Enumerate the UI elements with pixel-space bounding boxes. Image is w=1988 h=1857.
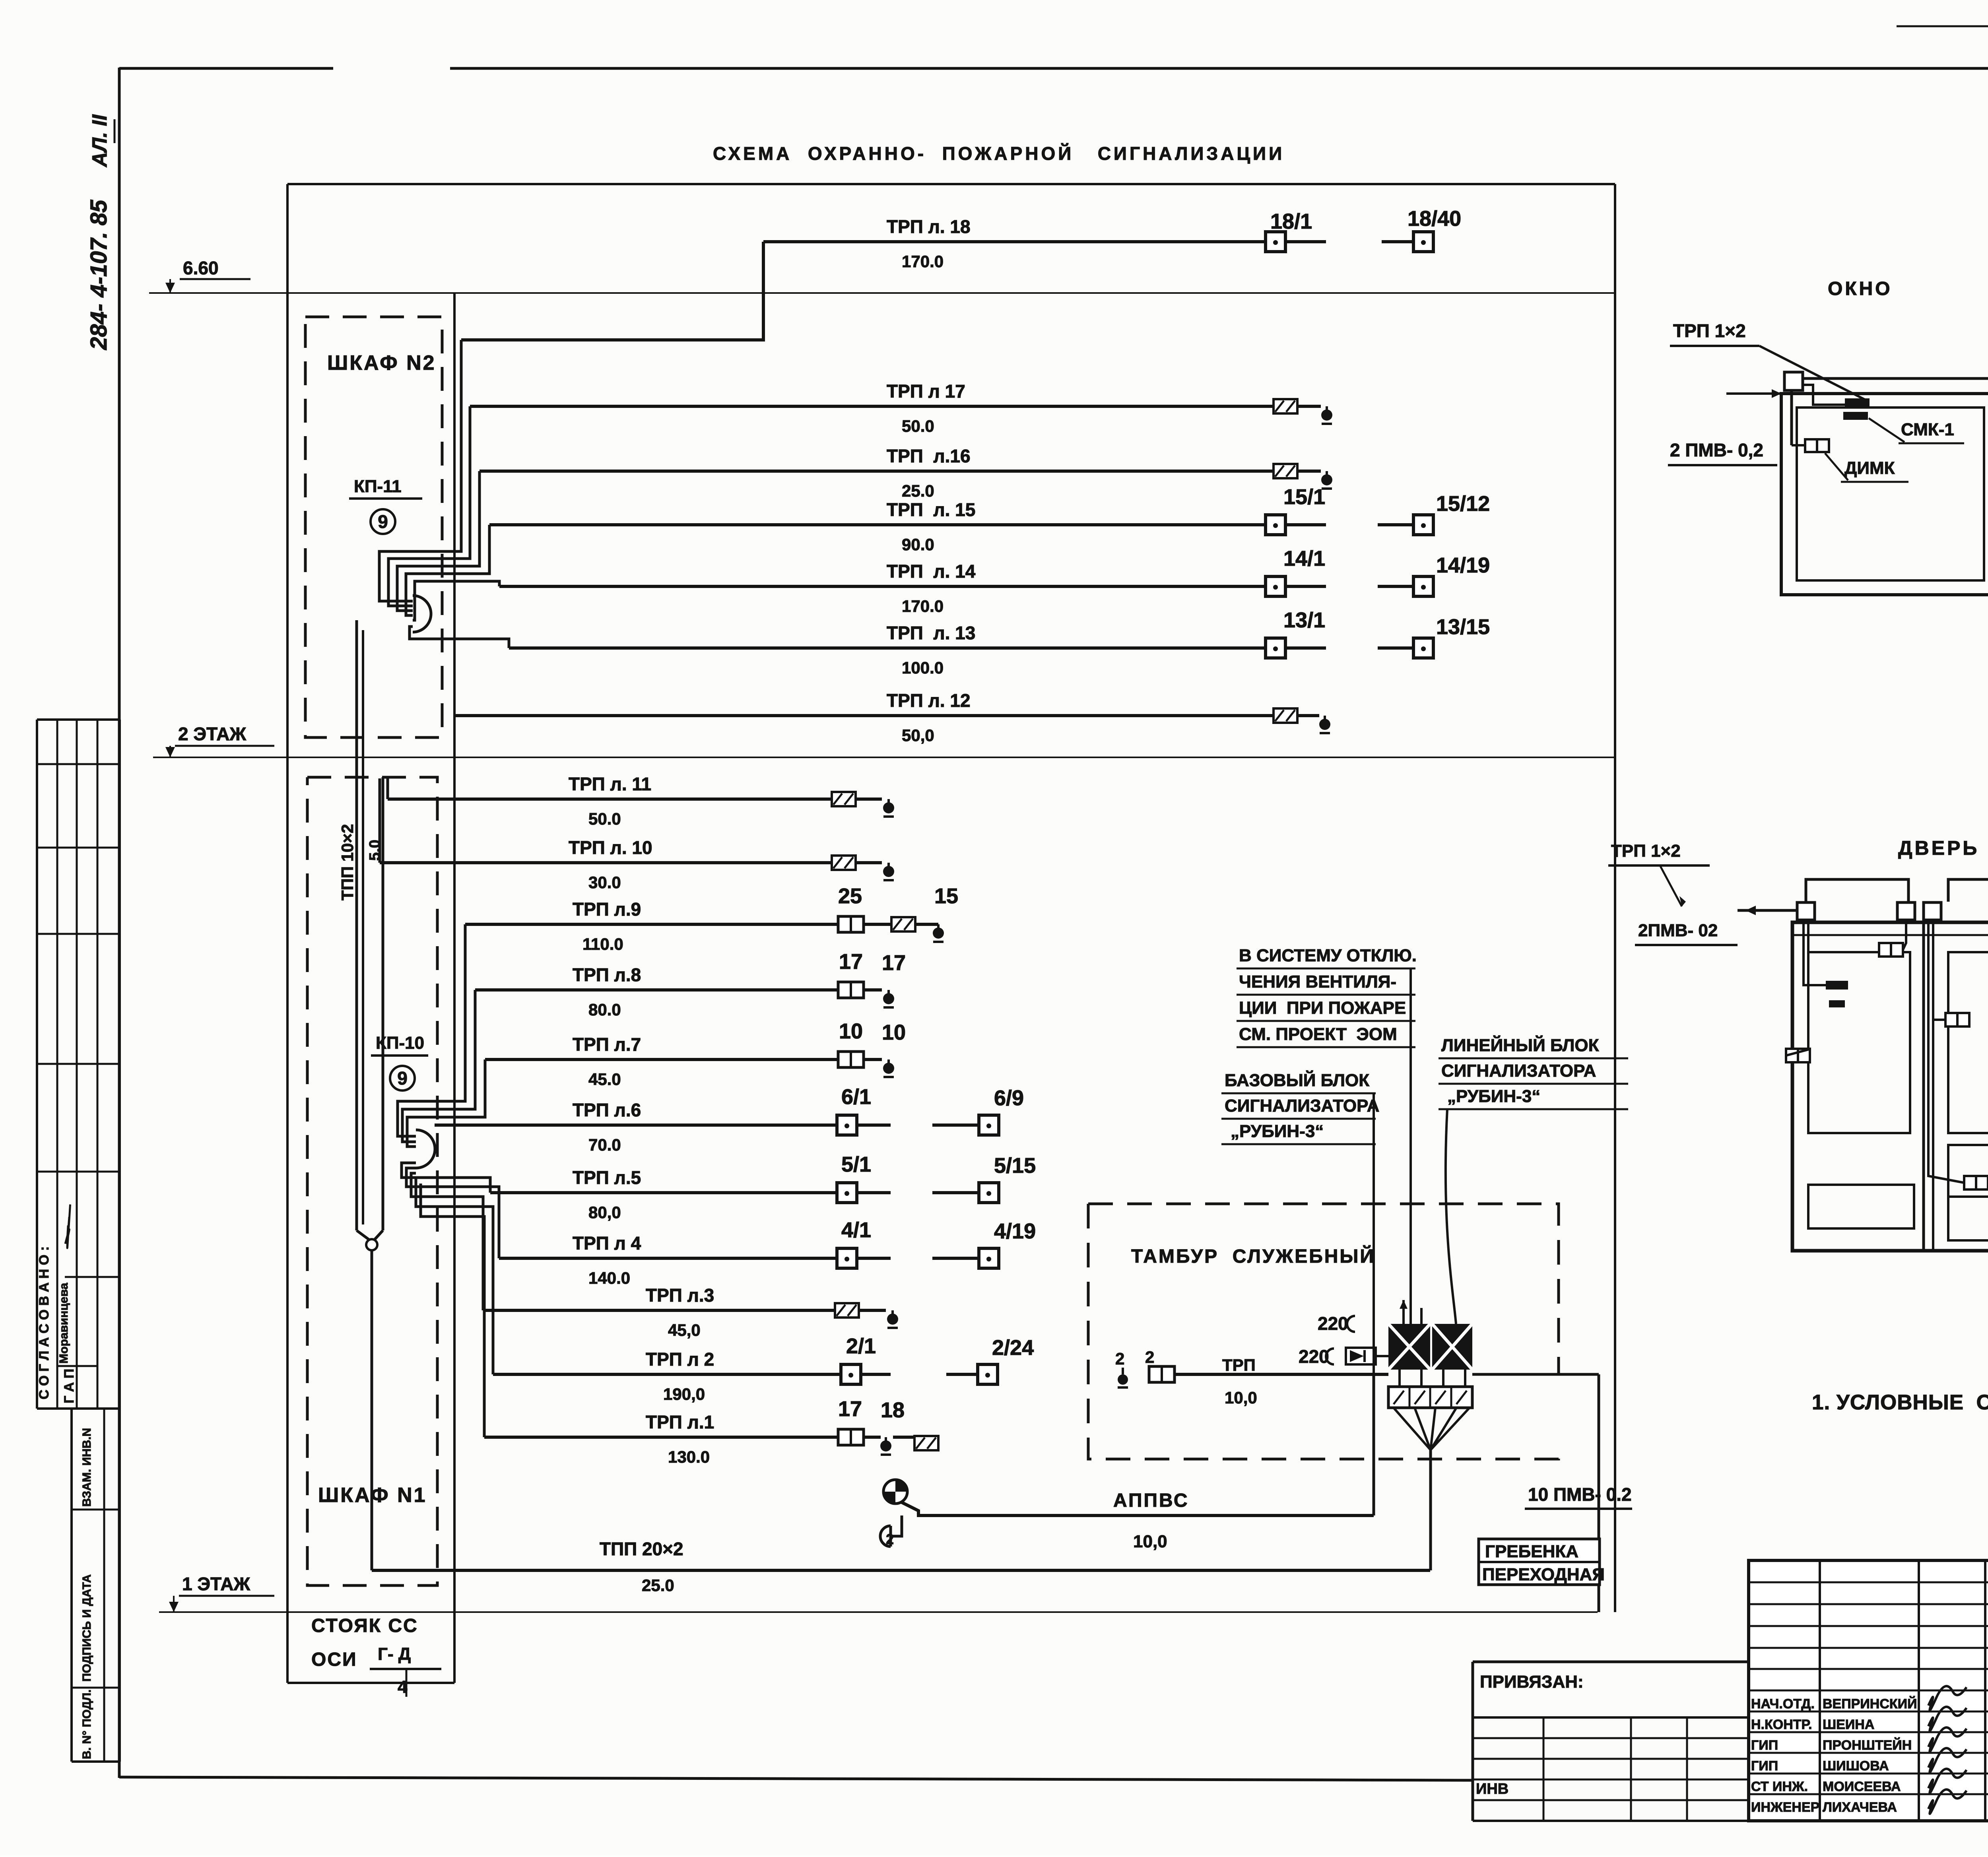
stamp left column verticals xyxy=(1819,1560,1821,1821)
terminator л.7 xyxy=(887,1059,890,1065)
leaf2 small panel xyxy=(1948,1145,1988,1197)
svg-text:ГРЕБЕНКА: ГРЕБЕНКА xyxy=(1485,1542,1578,1561)
svg-text:Г А П: Г А П xyxy=(62,1369,77,1403)
riser line to stояк box right edge xyxy=(453,293,456,1683)
svg-text:10: 10 xyxy=(839,1019,863,1043)
diode symbol xyxy=(1346,1348,1376,1364)
svg-text:В СИСТЕМУ ОТКЛЮ.: В СИСТЕМУ ОТКЛЮ. xyxy=(1239,946,1417,965)
svg-text:ТРП л 17: ТРП л 17 xyxy=(887,381,965,402)
wire ТРП л.5 xyxy=(490,1191,837,1194)
svg-text:ОСИ: ОСИ xyxy=(311,1649,357,1670)
vitrage left lead wire xyxy=(1738,909,1796,912)
svg-text:2 ПМВ- 0,2: 2 ПМВ- 0,2 xyxy=(1670,440,1763,460)
svg-text:СИГНАЛИЗАТОРА: СИГНАЛИЗАТОРА xyxy=(1225,1096,1379,1116)
привязан table xyxy=(1473,1661,1749,1663)
terminator л.1 xyxy=(885,1437,887,1443)
wire fan point down to ТПП 20x2 xyxy=(1429,1450,1432,1570)
wire ТПП 20x2 xyxy=(372,1569,1430,1572)
vitrage body outer xyxy=(1792,922,1988,1251)
svg-text:15/12: 15/12 xyxy=(1436,492,1490,516)
wire ТРП л.15 feed xyxy=(406,525,489,615)
connector КП-10 circled 9 xyxy=(390,1066,415,1091)
svg-text:4/1: 4/1 xyxy=(841,1218,871,1242)
svg-text:ГИП: ГИП xyxy=(1751,1738,1778,1753)
svg-text:18: 18 xyxy=(881,1398,905,1422)
wire ТРП л.4 feed xyxy=(406,1168,499,1258)
wire ТРП л.3 xyxy=(483,1309,835,1312)
svg-text:СМК-1: СМК-1 xyxy=(1901,420,1954,439)
terminator л.3 xyxy=(891,1310,894,1316)
svg-text:17: 17 xyxy=(882,951,906,975)
main stamp outer xyxy=(1749,1560,1988,1821)
wire segment to 13/15 xyxy=(1378,646,1414,650)
vitrage smk pairs top row xyxy=(1879,943,1891,957)
svg-text:18/40: 18/40 xyxy=(1408,207,1461,231)
wire base block vertical to line xyxy=(1373,1374,1375,1515)
signal unit Рубин-3 X-box right xyxy=(1432,1324,1472,1370)
svg-text:ПЕРЕХОДНАЯ: ПЕРЕХОДНАЯ xyxy=(1482,1565,1605,1584)
wire ТРП л.18 xyxy=(763,240,1267,243)
detector 17 head xyxy=(838,982,864,998)
svg-text:АППВС: АППВС xyxy=(1113,1490,1189,1511)
svg-text:5/1: 5/1 xyxy=(841,1153,871,1176)
rubin top arrows xyxy=(1402,1300,1405,1324)
terminator л.10 xyxy=(887,863,890,868)
svg-text:15/1: 15/1 xyxy=(1283,485,1325,509)
svg-text:С О Г Л А С О В А Н О :: С О Г Л А С О В А Н О : xyxy=(37,1246,52,1399)
detector л.16 end switch xyxy=(1274,464,1297,478)
svg-text:ТРП л.6: ТРП л.6 xyxy=(573,1100,641,1120)
svg-text:ЧЕНИЯ ВЕНТИЛЯ-: ЧЕНИЯ ВЕНТИЛЯ- xyxy=(1239,972,1396,992)
level 6.60 line xyxy=(149,292,1615,294)
svg-text:СМ. ПРОЕКТ ЭОМ: СМ. ПРОЕКТ ЭОМ xyxy=(1239,1025,1397,1044)
svg-text:2/24: 2/24 xyxy=(992,1336,1034,1360)
svg-text:30.0: 30.0 xyxy=(588,873,621,892)
wire ТРП л.14 feed xyxy=(413,581,499,620)
wire 10ПМВ-0.2 to гребенка xyxy=(1472,1373,1599,1376)
leader linear block to rubin xyxy=(1446,1109,1456,1324)
svg-text:ДВЕРЬ ВИ РАЖНАЯ: ДВЕРЬ ВИ РАЖНАЯ xyxy=(1898,837,1988,859)
top trim line xyxy=(1897,25,1988,27)
trunk wire down to ТПП 20x2 xyxy=(371,1250,373,1570)
terminator tambour xyxy=(1118,1374,1128,1385)
vitrage smk pairs lower xyxy=(1945,1013,1957,1026)
wire 220 into block xyxy=(1376,1355,1388,1357)
svg-text:2: 2 xyxy=(1115,1349,1124,1368)
svg-text:18/1: 18/1 xyxy=(1270,210,1312,233)
wire ТРП л.2 feed xyxy=(416,1178,493,1374)
detector 4/19 xyxy=(979,1248,999,1268)
vitrage wires leaf1 xyxy=(1804,920,1826,985)
vitrage wires leaf2 xyxy=(1928,920,1964,1183)
detector 18/40 xyxy=(1413,232,1433,252)
wire ТРП л.13 feed xyxy=(410,627,509,648)
left margin stamp table lower xyxy=(70,1409,73,1762)
signature squiggle xyxy=(56,1205,80,1248)
svg-text:6/1: 6/1 xyxy=(841,1085,871,1109)
wire ТРП л.5 feed xyxy=(402,1163,490,1193)
detector head tambour xyxy=(1149,1366,1175,1382)
svg-text:15: 15 xyxy=(934,884,958,908)
svg-text:ТРП л.3: ТРП л.3 xyxy=(646,1285,714,1306)
signal unit Рубин-3 X-box left xyxy=(1388,1324,1430,1370)
svg-text:45.0: 45.0 xyxy=(588,1070,621,1089)
svg-text:50.0: 50.0 xyxy=(902,417,934,435)
svg-text:ТРП л. 12: ТРП л. 12 xyxy=(887,690,971,711)
svg-text:ТРП л 2: ТРП л 2 xyxy=(646,1349,714,1370)
svg-text:СХЕМА ОХРАННО- ПОЖАРНОЙ СИ: СХЕМА ОХРАННО- ПОЖАРНОЙ СИГНАЛИЗАЦИИ xyxy=(713,143,1285,164)
window frame inner xyxy=(1797,407,1984,580)
svg-text:2: 2 xyxy=(1145,1348,1154,1366)
svg-text:ШКАФ N2: ШКАФ N2 xyxy=(327,351,436,375)
wire АППВС xyxy=(901,1502,1374,1515)
trunk wire extra xyxy=(362,630,364,1224)
vitrage top rail xyxy=(1792,934,1988,936)
svg-text:6/9: 6/9 xyxy=(994,1086,1024,1110)
wire ТРП л.4 xyxy=(499,1257,837,1260)
terminator л.11 xyxy=(887,799,890,805)
svg-text:1. УСЛОВНЫЕ ОБОЗНАЧЕНИЯ СМ.: 1. УСЛОВНЫЕ ОБОЗНАЧЕНИЯ СМ. ЛИСТ 1. xyxy=(1812,1391,1988,1414)
vitrage junction boxes xyxy=(1797,902,1815,920)
svg-text:10: 10 xyxy=(882,1021,906,1044)
wire ТРП л.14 xyxy=(499,585,1267,588)
stояк box bottom xyxy=(287,1682,454,1684)
svg-text:2 ЭТАЖ: 2 ЭТАЖ xyxy=(178,724,247,744)
window junction box xyxy=(1784,372,1803,390)
svg-text:ТРП л. 14: ТРП л. 14 xyxy=(887,561,976,582)
wire segment to 2/24 xyxy=(946,1373,978,1376)
wire segment л.1 xyxy=(893,1436,914,1439)
detector 10 head xyxy=(838,1052,864,1067)
wire ТРП л.11 xyxy=(388,798,832,801)
svg-text:ИНЖЕНЕР: ИНЖЕНЕР xyxy=(1751,1800,1819,1815)
svg-text:13/15: 13/15 xyxy=(1436,615,1490,639)
svg-text:„РУБИН-3“: „РУБИН-3“ xyxy=(1447,1087,1540,1106)
sheet frame border xyxy=(118,68,121,1778)
leader to junction xyxy=(1759,346,1869,402)
detector л.17 end switch xyxy=(1274,399,1297,413)
stamp name rows xyxy=(1749,1690,1988,1692)
wire гребенка down to 1 этаж xyxy=(1598,1585,1600,1612)
svg-text:220: 220 xyxy=(1299,1346,1329,1367)
svg-text:9: 9 xyxy=(397,1068,408,1089)
sensor ДИМК xyxy=(1805,439,1817,452)
wire from note to rubin xyxy=(1409,968,1412,1324)
detector 5/1 xyxy=(837,1183,857,1203)
wire ТРП 10.0 inside tambour xyxy=(1175,1373,1388,1376)
wire ТРП л.3 feed xyxy=(411,1173,483,1310)
svg-text:ТРП л.5: ТРП л.5 xyxy=(573,1167,641,1188)
svg-text:170.0: 170.0 xyxy=(902,252,944,271)
detector 14/19 xyxy=(1413,576,1433,596)
svg-text:17: 17 xyxy=(839,950,863,974)
detector л.12 end switch xyxy=(1274,708,1297,723)
wire ТРП л.10 xyxy=(380,861,832,864)
svg-text:СТОЯК СС: СТОЯК СС xyxy=(311,1615,418,1636)
level 2 ЭТАЖ line xyxy=(153,757,1615,758)
svg-text:ТПП 20×2: ТПП 20×2 xyxy=(600,1539,683,1559)
terminator л.9 xyxy=(937,924,940,930)
wire ТРП л.9 feed xyxy=(398,924,465,1136)
wire segment to 6/9 xyxy=(932,1124,979,1127)
svg-text:ЦИИ ПРИ ПОЖАРЕ: ЦИИ ПРИ ПОЖАРЕ xyxy=(1239,998,1406,1018)
dashed box ТАМБУР СЛУЖЕБНЫЙ xyxy=(1088,1204,1559,1374)
svg-text:50.0: 50.0 xyxy=(588,809,621,828)
svg-text:220: 220 xyxy=(1318,1313,1348,1334)
svg-text:СТ ИНЖ.: СТ ИНЖ. xyxy=(1751,1779,1808,1794)
svg-text:ТРП л. 18: ТРП л. 18 xyxy=(887,216,971,237)
svg-text:10 ПМВ- 0.2: 10 ПМВ- 0.2 xyxy=(1528,1484,1632,1505)
terminator л.12 xyxy=(1324,716,1326,721)
window top wire xyxy=(1803,377,1988,380)
svg-text:ТРП: ТРП xyxy=(1222,1356,1256,1374)
wire segment to 5/15 xyxy=(932,1191,979,1194)
detector л.10 end switch xyxy=(832,856,856,870)
wire ТРП л.17 xyxy=(470,405,1274,408)
detector л.11 end switch xyxy=(832,792,856,806)
leader base block down xyxy=(1373,1093,1375,1374)
connector fan КП-11 xyxy=(413,596,431,632)
wire ТРП л.17 feed xyxy=(388,406,470,606)
connector fan КП-10 xyxy=(416,1130,435,1168)
svg-text:ДИМК: ДИМК xyxy=(1844,458,1895,478)
connector КП-11 circled 9 xyxy=(371,509,395,534)
detector 17-18 head xyxy=(838,1429,864,1445)
wire ТРП л.8 xyxy=(475,988,838,992)
svg-text:ТРП л. 15: ТРП л. 15 xyxy=(887,499,975,520)
svg-text:АЛ. II: АЛ. II xyxy=(88,114,111,168)
svg-text:ТРП л.7: ТРП л.7 xyxy=(573,1034,641,1055)
detector 4/1 xyxy=(837,1248,857,1268)
detector 2/1 xyxy=(841,1364,861,1384)
terminator л.16 xyxy=(1326,471,1328,477)
detector 2/24 xyxy=(978,1364,998,1384)
svg-text:ТРП л. 13: ТРП л. 13 xyxy=(887,623,975,643)
wire ТРП л.16 feed xyxy=(397,471,480,611)
svg-text:ТРП 1×2: ТРП 1×2 xyxy=(1611,841,1681,861)
svg-text:ТРП л. 10: ТРП л. 10 xyxy=(569,837,652,858)
svg-text:70.0: 70.0 xyxy=(588,1135,621,1154)
svg-text:1 ЭТАЖ: 1 ЭТАЖ xyxy=(182,1574,250,1594)
svg-text:ИНВ: ИНВ xyxy=(1476,1781,1508,1797)
svg-text:9: 9 xyxy=(378,511,388,532)
window frame outer xyxy=(1781,394,1988,595)
svg-text:Моравинцева: Моравинцева xyxy=(57,1283,70,1364)
svg-text:ТРП л.8: ТРП л.8 xyxy=(573,964,641,985)
wire ТРП л.18 feed riser xyxy=(461,242,763,340)
wire ТРП л.10 feed xyxy=(379,778,381,863)
detector 14/1 xyxy=(1266,576,1285,596)
svg-text:25.0: 25.0 xyxy=(902,481,934,500)
svg-text:2ПМВ- 02: 2ПМВ- 02 xyxy=(1638,921,1718,940)
svg-text:ТАМБУР СЛУЖЕБНЫЙ: ТАМБУР СЛУЖЕБНЫЙ xyxy=(1131,1245,1375,1267)
svg-text:13/1: 13/1 xyxy=(1283,608,1325,632)
svg-text:ЛИХАЧЕВА: ЛИХАЧЕВА xyxy=(1823,1800,1897,1815)
leaf2 panel xyxy=(1948,952,1988,1133)
wire ТРП л.9 xyxy=(465,923,837,926)
svg-text:100.0: 100.0 xyxy=(902,658,944,677)
wire ТРП л.15 xyxy=(489,523,1267,526)
detector 13/15 xyxy=(1413,638,1433,658)
terminator л.8 xyxy=(887,990,890,995)
svg-text:80,0: 80,0 xyxy=(588,1203,621,1222)
wire ТРП л.11 feed xyxy=(386,778,389,799)
detector л.9 end switch xyxy=(891,917,915,931)
trunk junction circle xyxy=(357,1230,369,1240)
detector 13/1 xyxy=(1266,638,1285,658)
svg-text:ТРП л.1: ТРП л.1 xyxy=(646,1412,714,1432)
main diagram enclosure box xyxy=(287,183,1615,185)
svg-text:ТРП 1×2: ТРП 1×2 xyxy=(1673,320,1746,341)
svg-text:ВЗАМ. ИНВ.N: ВЗАМ. ИНВ.N xyxy=(80,1428,93,1507)
svg-text:БАЗОВЫЙ БЛОК: БАЗОВЫЙ БЛОК xyxy=(1225,1070,1369,1090)
fan out to гребенка point xyxy=(1394,1408,1431,1450)
svg-text:190,0: 190,0 xyxy=(663,1385,705,1403)
svg-text:ПОДПИСЬ И ДАТА: ПОДПИСЬ И ДАТА xyxy=(80,1574,93,1682)
wire ТРП л.16 xyxy=(480,470,1274,473)
svg-text:ТРП л 4: ТРП л 4 xyxy=(573,1233,641,1254)
detector 6/1 xyxy=(837,1115,857,1135)
svg-text:110.0: 110.0 xyxy=(582,935,623,953)
svg-text:В. N° ПОДЛ.: В. N° ПОДЛ. xyxy=(80,1689,93,1759)
wire segment to 15/12 xyxy=(1378,523,1414,526)
detector 15/12 xyxy=(1413,515,1433,535)
svg-text:Н.КОНТР.: Н.КОНТР. xyxy=(1751,1717,1812,1732)
wire segment to 4/19 xyxy=(932,1257,979,1260)
detector л.3 end switch xyxy=(835,1303,859,1318)
detector 18/1 xyxy=(1266,232,1285,252)
svg-text:14/1: 14/1 xyxy=(1283,547,1325,570)
sensor СМК-1 magnets xyxy=(1845,398,1870,406)
rubin connection verticals xyxy=(1398,1370,1401,1387)
svg-text:ПРОНШТЕЙН: ПРОНШТЕЙН xyxy=(1823,1737,1912,1753)
svg-text:ТПП 10×2: ТПП 10×2 xyxy=(338,824,357,900)
trunk wire ТПП 10x2 xyxy=(355,620,358,1230)
svg-text:МОИСЕЕВА: МОИСЕЕВА xyxy=(1823,1779,1901,1794)
svg-text:6.60: 6.60 xyxy=(183,258,219,278)
svg-text:ГИП: ГИП xyxy=(1751,1758,1778,1774)
wire ТРП л.13 xyxy=(509,646,1267,650)
svg-text:Г- Д: Г- Д xyxy=(378,1644,411,1664)
wire ТРП л.6 feed xyxy=(435,1124,837,1127)
svg-text:ТРП л.9: ТРП л.9 xyxy=(573,899,641,920)
trunk wire second xyxy=(382,777,384,1230)
wire ТРП л.2 xyxy=(493,1373,842,1376)
svg-text:ТРП л. 11: ТРП л. 11 xyxy=(569,774,651,794)
svg-text:ВЕПРИНСКИЙ: ВЕПРИНСКИЙ xyxy=(1823,1696,1917,1711)
svg-text:5/15: 5/15 xyxy=(994,1154,1036,1178)
svg-text:2/1: 2/1 xyxy=(846,1334,876,1358)
svg-text:ТРП л.16: ТРП л.16 xyxy=(887,446,971,466)
svg-text:17: 17 xyxy=(838,1397,862,1421)
wire ТРП л.1 xyxy=(484,1436,838,1439)
wire ТРП л.12 xyxy=(454,714,1274,717)
detector 6/9 xyxy=(979,1115,999,1135)
terminator л.17 xyxy=(1326,406,1328,412)
svg-text:ШИШОВА: ШИШОВА xyxy=(1823,1758,1889,1774)
svg-text:ПРИВЯЗАН:: ПРИВЯЗАН: xyxy=(1480,1672,1584,1692)
vitrage door outline top xyxy=(1806,879,1908,911)
left margin stamp table upper xyxy=(36,720,38,1409)
level 1 ЭТАЖ line xyxy=(159,1611,1598,1613)
vitrage pmv black sensors xyxy=(1826,981,1848,990)
vitrage inner verticals xyxy=(1922,922,1925,1251)
cabinet ШКАФ N2 dashed box xyxy=(305,317,442,737)
detector 25 head xyxy=(838,916,864,932)
wire segment to 14/19 xyxy=(1378,585,1414,588)
stamp narrow rows left part xyxy=(1749,1581,1988,1583)
rubin terminal strip xyxy=(1388,1387,1472,1408)
svg-text:130.0: 130.0 xyxy=(668,1448,710,1466)
svg-text:25: 25 xyxy=(838,884,862,908)
cabinet ШКАФ N1 dashed box xyxy=(307,777,437,1585)
svg-text:80.0: 80.0 xyxy=(588,1000,621,1019)
svg-text:10,0: 10,0 xyxy=(1225,1388,1257,1407)
detector 15/1 xyxy=(1266,515,1285,535)
half annunciator symbol xyxy=(880,1526,891,1547)
svg-text:„РУБИН-3“: „РУБИН-3“ xyxy=(1231,1122,1324,1141)
wire ТРП л.7 feed xyxy=(407,1059,485,1147)
svg-text:10,0: 10,0 xyxy=(1133,1532,1167,1551)
window left wire with arrow xyxy=(1726,392,1784,395)
signatures handwriting xyxy=(1928,1686,1967,1710)
svg-text:2: 2 xyxy=(886,1531,894,1547)
svg-text:45,0: 45,0 xyxy=(668,1321,701,1339)
detector л.1 end switch xyxy=(914,1436,938,1450)
svg-text:170.0: 170.0 xyxy=(902,597,944,615)
fire annunciator АППВС bell xyxy=(883,1480,907,1504)
svg-text:140.0: 140.0 xyxy=(588,1269,630,1287)
svg-text:284- 4-107. 85: 284- 4-107. 85 xyxy=(86,200,112,350)
svg-text:НАЧ.ОТД.: НАЧ.ОТД. xyxy=(1751,1696,1815,1711)
wire ТРП л.7 xyxy=(485,1058,838,1061)
leaf1 panel xyxy=(1808,952,1910,1133)
svg-text:50,0: 50,0 xyxy=(902,726,934,745)
wire ТРП л.1 feed xyxy=(421,1184,484,1437)
wire ТРП л.8 feed xyxy=(402,990,475,1142)
svg-text:СИГНАЛИЗАТОРА: СИГНАЛИЗАТОРА xyxy=(1441,1061,1596,1081)
svg-text:КП-11: КП-11 xyxy=(354,477,402,496)
svg-text:ШЕИНА: ШЕИНА xyxy=(1823,1717,1874,1732)
detector 5/15 xyxy=(979,1183,999,1203)
box ГРЕБЕНКА ПЕРЕХОДНАЯ xyxy=(1479,1539,1600,1585)
wire segment to 18/40 xyxy=(1382,240,1414,243)
window wire down from box xyxy=(1790,390,1793,445)
svg-text:4/19: 4/19 xyxy=(994,1219,1036,1243)
vitrage bottom rects xyxy=(1808,1185,1914,1228)
svg-text:ЛИНЕЙНЫЙ БЛОК: ЛИНЕЙНЫЙ БЛОК xyxy=(1441,1035,1599,1055)
svg-text:90.0: 90.0 xyxy=(902,535,934,554)
svg-text:ОКНО: ОКНО xyxy=(1828,278,1893,299)
svg-text:14/19: 14/19 xyxy=(1436,553,1490,577)
svg-text:25.0: 25.0 xyxy=(642,1576,674,1595)
